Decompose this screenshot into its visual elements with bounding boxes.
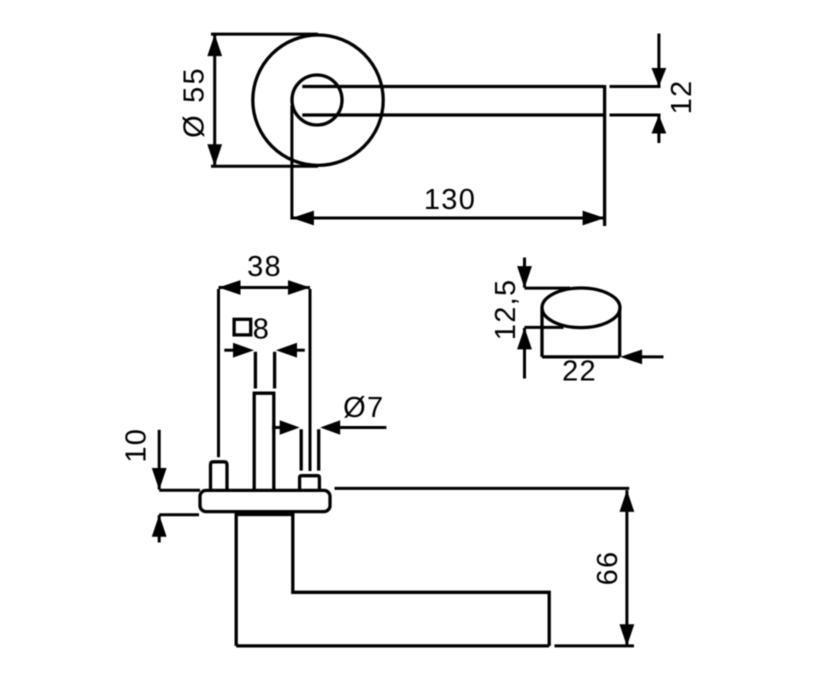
svg-text:22: 22 [562,356,597,388]
svg-text:8: 8 [253,313,270,345]
svg-text:12,5: 12,5 [490,279,522,341]
svg-text:Ø 55: Ø 55 [179,66,211,138]
svg-text:66: 66 [592,551,624,586]
svg-text:10: 10 [121,428,153,463]
svg-text:38: 38 [247,251,282,283]
svg-text:12: 12 [666,80,698,115]
svg-text:Ø7: Ø7 [343,392,384,424]
svg-text:130: 130 [424,184,476,216]
